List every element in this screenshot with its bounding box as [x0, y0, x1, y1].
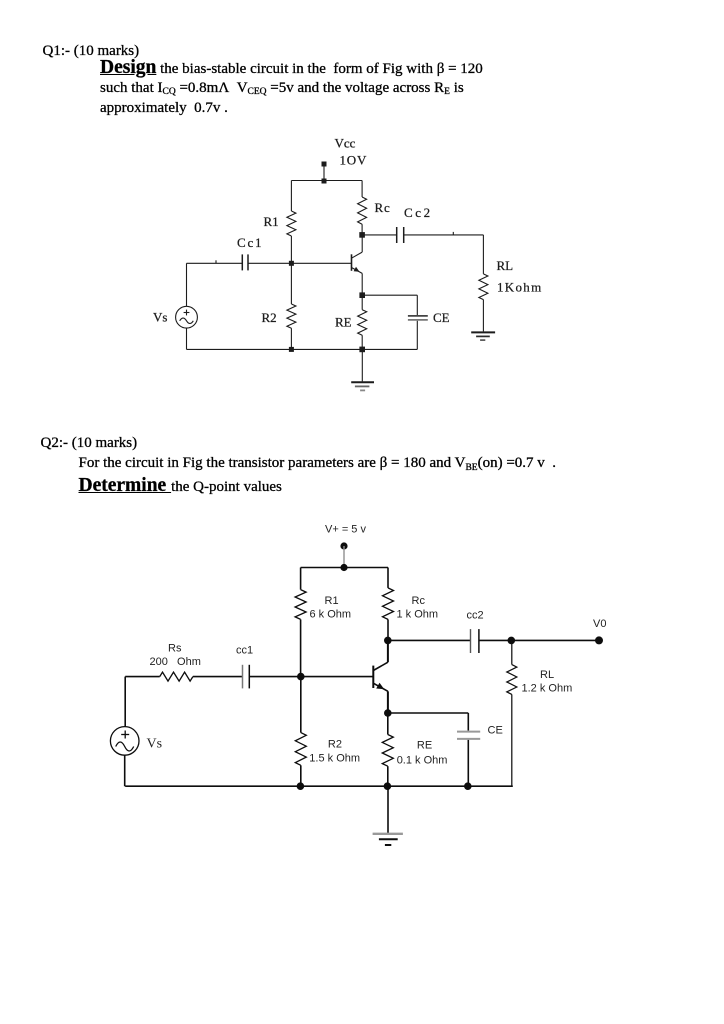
node: RL top junction dot: [508, 637, 516, 645]
node: emitter junction: [359, 292, 365, 298]
svg-text:Rc: Rc: [412, 595, 426, 607]
resistor RL (circuit 1): [479, 235, 488, 332]
resistor Rs: [160, 672, 193, 681]
capacitor cc1: [243, 665, 250, 689]
svg-text:Rs: Rs: [168, 643, 182, 655]
wire: Rs to cc1: [193, 676, 243, 678]
source Vs (circuit 1): [176, 263, 198, 349]
wire: top rail: [291, 180, 362, 182]
svg-text:1OV: 1OV: [340, 153, 368, 168]
svg-text:Cc1: Cc1: [237, 235, 263, 250]
resistor RE (circuit 1): [358, 295, 367, 349]
svg-text:1 k Ohm: 1 k Ohm: [397, 609, 439, 621]
svg-text:200 Ohm: 200 Ohm: [150, 656, 201, 668]
node: base junction dot: [297, 673, 305, 681]
svg-text:R1: R1: [264, 214, 279, 229]
transistor Q2: [373, 640, 388, 713]
transistor Q1: [352, 235, 363, 295]
capacitor cc2: [471, 629, 479, 653]
ground (below RL, circuit 1): [471, 332, 495, 340]
svg-text:Vs: Vs: [153, 310, 167, 325]
capacitor Cc1: [242, 254, 248, 270]
terminal V0 dot: [595, 636, 603, 644]
node: RE bottom junction: [359, 347, 365, 353]
svg-text:cc1: cc1: [236, 645, 253, 657]
wire: bottom rail (circuit 2): [125, 785, 513, 787]
svg-text:R2: R2: [262, 310, 277, 325]
wire: Vs corner to Rs: [125, 676, 160, 678]
node: V+ rail junction: [340, 564, 347, 571]
wire: cc1 to base: [249, 676, 373, 678]
node: R2 bottom junction: [289, 347, 294, 352]
wire: base wire (Vs to Cc1): [187, 262, 243, 264]
svg-text:V+ = 5 v: V+ = 5 v: [325, 524, 366, 536]
svg-text:1.2 k Ohm: 1.2 k Ohm: [522, 683, 573, 695]
capacitor CE (circuit 1): [408, 295, 428, 349]
node: collector dot: [384, 637, 392, 645]
svg-text:V0: V0: [593, 618, 606, 630]
node: CE bottom dot: [464, 782, 472, 790]
svg-text:1Kohm: 1Kohm: [497, 280, 543, 295]
capacitor CE (circuit 2): [457, 713, 480, 786]
resistor Rc: [358, 181, 367, 235]
svg-text:RE: RE: [335, 315, 352, 330]
source Vs (circuit 2): [110, 677, 139, 787]
node: R2 bottom dot: [297, 782, 305, 790]
svg-text:Vcc: Vcc: [335, 136, 356, 151]
tick mark on base wire: [215, 260, 217, 263]
svg-text:Cc2: Cc2: [404, 205, 433, 220]
svg-text:6 k Ohm: 6 k Ohm: [310, 609, 352, 621]
wire: emitter to CE: [362, 294, 417, 296]
power terminal Vcc: [322, 162, 327, 181]
svg-text:RL: RL: [540, 669, 554, 681]
svg-text:RE: RE: [417, 740, 432, 752]
svg-text:CE: CE: [433, 310, 450, 325]
node: collector junction: [359, 232, 365, 238]
wire: top rail (circuit 2): [301, 567, 388, 569]
wire: cc2 to V0: [479, 639, 599, 641]
resistor R2: [287, 263, 296, 349]
svg-text:RL: RL: [497, 258, 514, 273]
wire: collector to cc2: [388, 639, 471, 641]
wire: emitter to CE: [388, 712, 469, 714]
node: emitter dot: [384, 709, 392, 717]
node: Vcc rail junction: [322, 179, 327, 184]
svg-text:1.5 k Ohm: 1.5 k Ohm: [309, 753, 360, 765]
svg-text:0.1 k Ohm: 0.1 k Ohm: [397, 755, 448, 767]
wire: bottom rail (circuit 1): [187, 348, 418, 350]
resistor R2 (circuit 2): [295, 677, 306, 787]
resistor R1 (circuit 2): [295, 568, 306, 677]
resistor RL (circuit 2): [507, 640, 517, 786]
wire: Cc2 to RL corner: [404, 232, 484, 235]
resistor R1: [287, 181, 296, 264]
svg-text:CE: CE: [488, 725, 503, 737]
node: RE bottom dot: [384, 782, 392, 790]
power terminal V+: [340, 542, 347, 567]
node: base junction: [289, 261, 294, 266]
resistor Rc (circuit 2): [383, 568, 394, 641]
resistor RE (circuit 2): [382, 713, 393, 786]
svg-text:Rc: Rc: [375, 200, 391, 215]
ground (circuit 1 main): [351, 349, 374, 390]
svg-text:cc2: cc2: [467, 610, 484, 622]
wire: base wire (Cc1 to transistor): [248, 262, 352, 264]
svg-text:Vs: Vs: [147, 737, 163, 752]
svg-text:R2: R2: [328, 739, 342, 751]
wire: collector to Cc2: [362, 234, 397, 236]
svg-text:R1: R1: [325, 595, 339, 607]
ground (circuit 2): [373, 786, 403, 845]
capacitor Cc2: [397, 227, 404, 243]
